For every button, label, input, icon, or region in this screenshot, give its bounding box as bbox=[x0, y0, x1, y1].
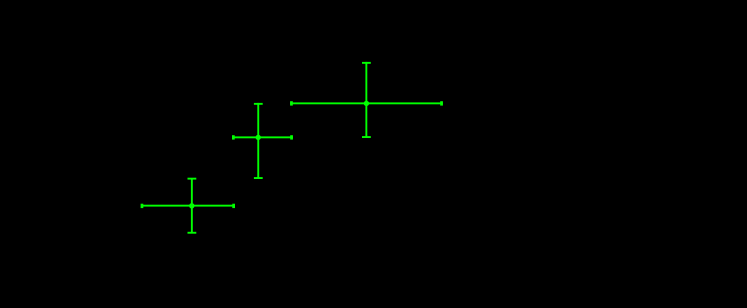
node: data point 2 marker bbox=[256, 135, 261, 140]
wire: x error bar line point 2 bbox=[232, 136, 293, 138]
data point 3 error bars bbox=[290, 62, 443, 138]
x error right cap point 2 bbox=[290, 135, 293, 139]
x error left cap point 2 bbox=[232, 135, 235, 139]
wire: x error bar line point 1 bbox=[141, 205, 235, 207]
x error right cap point 3 bbox=[440, 101, 443, 105]
wire: y error bar line point 2 bbox=[257, 103, 259, 179]
y error bottom cap point 1 bbox=[188, 232, 197, 234]
x error left cap point 3 bbox=[290, 101, 293, 105]
node: data point 3 marker bbox=[364, 101, 369, 106]
x error left cap point 1 bbox=[141, 204, 144, 208]
data point 2 error bars bbox=[232, 103, 293, 179]
y error top cap point 3 bbox=[362, 62, 371, 64]
wire: y error bar line point 1 bbox=[191, 178, 193, 234]
wire: y error bar line point 3 bbox=[365, 62, 367, 138]
wire: x error bar line point 3 bbox=[290, 102, 443, 104]
y error top cap point 1 bbox=[188, 178, 197, 180]
y error bottom cap point 3 bbox=[362, 136, 371, 138]
y error top cap point 2 bbox=[254, 103, 263, 105]
x error right cap point 1 bbox=[232, 204, 235, 208]
data point 1 error bars bbox=[141, 178, 235, 234]
y error bottom cap point 2 bbox=[254, 177, 263, 179]
node: data point 1 marker bbox=[189, 203, 194, 208]
